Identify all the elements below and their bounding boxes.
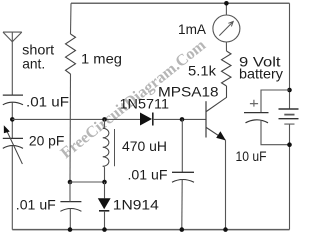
wire emitter to bottom rail — [225, 140, 227, 229]
inductor L1 core line — [114, 129, 116, 166]
transistor Q1 collector — [206, 86, 226, 112]
capacitor C1 curved plate — [3, 102, 23, 105]
node D dot — [180, 117, 185, 122]
inductor L1 470uH coil — [103, 128, 109, 166]
wire battery bottom to bottom rail — [289, 124, 291, 230]
svg-text:.01 uF: .01 uF — [128, 167, 168, 183]
svg-text:ant.: ant. — [22, 56, 45, 72]
svg-text:battery: battery — [239, 65, 283, 81]
capacitor C2 curved plate — [3, 146, 23, 149]
top rail wire — [71, 2, 290, 4]
capacitor C3 curved plate — [60, 209, 81, 212]
wire antenna down to C1 — [11, 32, 13, 95]
capacitor C2 20pF top plate — [3, 137, 23, 139]
bottom rail dot at D2 — [102, 227, 107, 232]
svg-text:1 meg: 1 meg — [81, 51, 122, 67]
transistor Q1 emitter — [206, 128, 225, 141]
wire C1 to node A — [11, 102, 13, 138]
node L1 top dot — [102, 117, 107, 122]
resistor R2 5.1k — [222, 51, 232, 86]
capacitor C3 .01uF top plate — [60, 201, 81, 203]
wire top rail to R1 — [70, 3, 73, 34]
wire meter to R2 — [225, 42, 227, 51]
capacitor C4 curved plate — [172, 180, 194, 183]
wire right vertical from top rail to battery — [289, 3, 291, 109]
node E dot (battery top junction) — [287, 88, 292, 93]
capacitor C5 curved plate — [246, 120, 269, 123]
wire node E to C5 top — [261, 90, 290, 113]
antenna — [3, 32, 22, 42]
bottom rail wire — [12, 229, 289, 231]
svg-text:MPSA18: MPSA18 — [158, 83, 219, 99]
capacitor C4 .01uF top plate — [172, 171, 194, 173]
diode D2 1N914 — [104, 182, 106, 198]
capacitor C2 variable arrow — [6, 130, 22, 164]
watermark FreeCircuitDiagram.Com — [58, 36, 210, 162]
node B dot — [68, 180, 73, 185]
wire C4 to bottom rail — [181, 180, 183, 230]
svg-text:10 uF: 10 uF — [236, 148, 267, 164]
svg-text:.01 uF: .01 uF — [26, 93, 69, 109]
svg-text:1N914: 1N914 — [113, 197, 159, 213]
wire C5 bottom to node F — [261, 120, 290, 145]
transistor Q1 emitter arrow — [216, 131, 226, 140]
wire top rail to meter — [225, 3, 227, 15]
battery B1 plates — [279, 108, 299, 110]
meter M1 needle arrow — [219, 22, 232, 35]
capacitor C5 10uF plus sign — [250, 100, 258, 107]
node C dot — [102, 180, 107, 185]
svg-text:470 uH: 470 uH — [122, 138, 167, 154]
wire L1 bottom lead — [103, 166, 105, 168]
bottom rail dot at emitter — [223, 227, 228, 232]
svg-text:.01 uF: .01 uF — [16, 197, 56, 213]
transistor Q1 MPSA18 base bar — [205, 101, 207, 137]
resistor R1 1 meg — [66, 34, 76, 74]
top rail dot — [224, 1, 229, 6]
capacitor C5 10uF top plate — [244, 112, 269, 114]
wire L1 top lead — [104, 119, 106, 126]
diode D1 1N5711 — [140, 113, 152, 126]
capacitor C1 .01uF top plate — [3, 94, 23, 96]
wire C2 to bottom rail — [11, 146, 13, 230]
svg-text:20 pF: 20 pF — [29, 132, 65, 148]
wire node B to node C — [70, 181, 105, 183]
node F dot — [287, 142, 292, 147]
svg-text:5.1k: 5.1k — [188, 62, 217, 78]
svg-text:1mA: 1mA — [178, 21, 207, 37]
wire node B to C3 — [69, 182, 71, 202]
bottom rail dot at C4 — [180, 227, 185, 232]
wire node D down to C4 — [181, 119, 183, 172]
main horizontal wire left — [12, 118, 140, 120]
wire R1 down to node B — [69, 74, 72, 182]
bottom rail dot at C3 — [68, 227, 73, 232]
wire D1 to Q1 base — [153, 118, 206, 120]
node A dot — [10, 117, 15, 122]
wire C3 to bottom rail — [69, 209, 71, 230]
meter M1 circle — [213, 15, 240, 42]
